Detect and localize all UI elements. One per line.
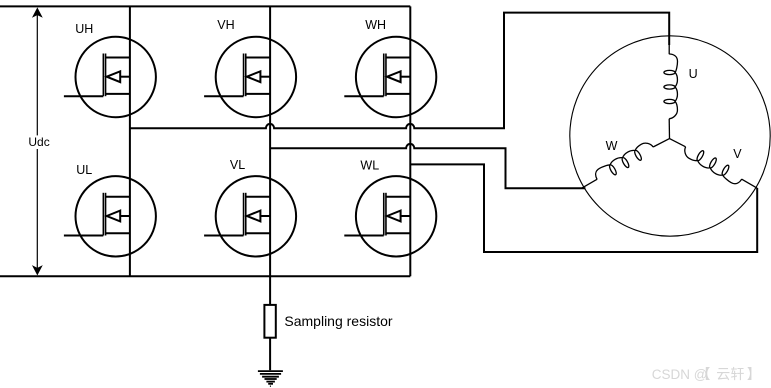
winding U terminal lead [668,36,670,54]
winding V coil [681,142,744,186]
transistor UL [64,176,156,256]
arrow shaft [36,14,38,135]
winding V (motor) [681,142,759,195]
wire bus to resistor [269,276,271,305]
winding U coil [664,54,678,119]
wire V phase leg [269,6,271,276]
svg-text:Sampling resistor: Sampling resistor [284,313,392,329]
wire W phase to motor [410,164,757,252]
svg-text:UH: UH [75,22,93,36]
wire top DC bus [0,5,410,7]
wire U phase to motor (with hops over V and W legs) [130,13,669,129]
svg-text:V: V [733,147,742,161]
wire resistor to ground [269,338,271,371]
arrow head down [33,266,42,274]
svg-text:W: W [606,139,618,153]
svg-text:WH: WH [365,18,386,32]
winding W terminal lead [581,179,597,188]
transistor WH [344,37,436,117]
wire V phase to motor (with hop over W leg) [270,144,585,188]
ground [258,371,283,386]
winding V terminal lead [741,179,757,188]
motor stator circle [570,36,770,236]
Udc measurement arrow [33,9,42,275]
winding W coil [593,140,656,184]
svg-text:Udc: Udc [28,135,49,149]
svg-text:VL: VL [230,158,245,172]
transistor VL [204,176,296,256]
winding W star lead [653,139,669,147]
winding U (motor) [664,36,678,139]
winding V star lead [670,139,686,147]
wire U phase leg [129,6,131,276]
svg-text:【云轩】: 【云轩】 [697,366,761,382]
wire bottom DC bus [0,275,410,277]
svg-text:UL: UL [76,163,92,177]
svg-text:U: U [689,67,698,81]
wire W phase leg [409,6,411,276]
arrow head up [33,9,42,17]
transistor WL [344,176,436,256]
transistor UH [64,37,156,117]
winding U star lead [668,119,670,139]
svg-text:VH: VH [217,18,234,32]
transistor VH [204,37,296,117]
winding W (motor) [577,140,655,193]
resistor R sampling [264,305,275,338]
svg-text:WL: WL [360,158,379,172]
